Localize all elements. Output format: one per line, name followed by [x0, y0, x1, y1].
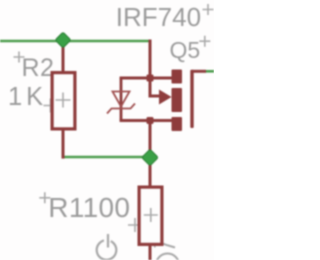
svg-text:IRF740: IRF740 [116, 2, 201, 32]
svg-text:R2: R2 [22, 54, 55, 82]
svg-text:R1100: R1100 [48, 192, 130, 223]
svg-text:Q5: Q5 [170, 37, 201, 63]
svg-text:1K: 1K [8, 83, 47, 111]
